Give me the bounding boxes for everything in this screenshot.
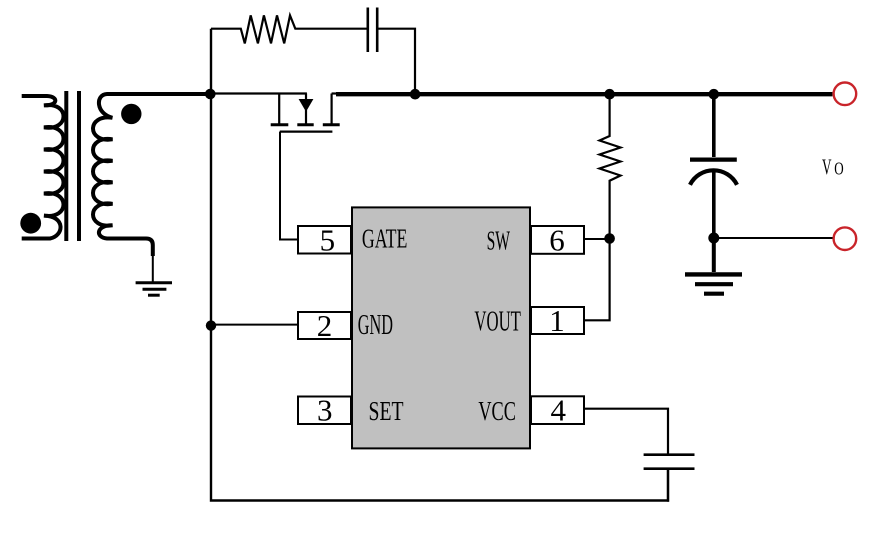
wire: main output rail (thick) <box>336 92 832 96</box>
transistor Q1 (MOSFET) <box>271 94 340 132</box>
resistor R2 (feedback) <box>600 96 621 239</box>
node: rail junction at snubber left <box>205 89 216 100</box>
wire: C3 to bottom bus <box>667 469 669 502</box>
terminal Vo- <box>834 227 857 250</box>
node: gnd bus junction <box>206 320 216 330</box>
svg-text:1: 1 <box>549 303 565 338</box>
pin 6 box <box>531 226 584 254</box>
wire: C1 to rail <box>377 29 415 92</box>
terminal Vo+ <box>834 83 857 106</box>
transformer core <box>66 91 79 241</box>
wire: source side thin segment <box>332 92 338 94</box>
snubber resistor R1 <box>211 15 368 43</box>
wire: left vertical bus + bottom bus <box>211 29 668 501</box>
wire: pin4 to C3 <box>584 409 668 455</box>
wire: pin2 stub <box>211 324 298 326</box>
wire: R2 junction to pin1 <box>584 239 610 321</box>
svg-text:6: 6 <box>549 222 565 257</box>
snubber capacitor C1 <box>368 8 377 53</box>
svg-text:V: V <box>822 154 832 179</box>
capacitor C3 (VCC) <box>644 455 695 469</box>
svg-text:4: 4 <box>551 392 567 427</box>
node: rail junction at R2 <box>604 89 615 100</box>
pin 5 box <box>298 226 351 254</box>
svg-text:5: 5 <box>320 222 336 257</box>
node: rail junction at C2 <box>709 89 720 100</box>
node: C2 bottom junction <box>708 233 719 244</box>
pin 1 box <box>531 307 584 334</box>
pin 3 box <box>298 397 351 425</box>
svg-text:SW: SW <box>487 226 511 256</box>
wire: C2 to ground <box>712 238 716 272</box>
ground (transformer) <box>136 254 172 295</box>
wire: gate lead to pin 5 <box>280 132 298 240</box>
ground (output) <box>685 274 742 293</box>
svg-text:VOUT: VOUT <box>474 307 521 338</box>
svg-text:3: 3 <box>317 392 333 427</box>
transformer T1 secondary winding <box>93 94 211 256</box>
svg-text:VCC: VCC <box>478 396 516 426</box>
primary phase dot <box>20 213 41 234</box>
Q1 body arrow <box>299 99 314 112</box>
pin 4 box <box>531 396 584 424</box>
wire: output return <box>714 237 834 239</box>
node: R2 bottom junction <box>604 233 615 244</box>
svg-text:GND: GND <box>358 310 393 341</box>
svg-text:O: O <box>834 158 843 178</box>
svg-text:2: 2 <box>317 308 333 343</box>
svg-text:SET: SET <box>369 396 404 426</box>
transformer T1 primary winding <box>22 96 64 239</box>
node: rail junction at snubber right <box>410 89 421 100</box>
svg-text:GATE: GATE <box>362 224 408 254</box>
wire: pin6 stub <box>584 238 610 240</box>
wire: drain side thin segment <box>211 92 307 94</box>
IC U1 body <box>352 207 530 448</box>
capacitor C2 (output, polarized) <box>690 95 737 238</box>
pin 2 box <box>298 312 351 339</box>
secondary phase dot <box>121 104 141 124</box>
